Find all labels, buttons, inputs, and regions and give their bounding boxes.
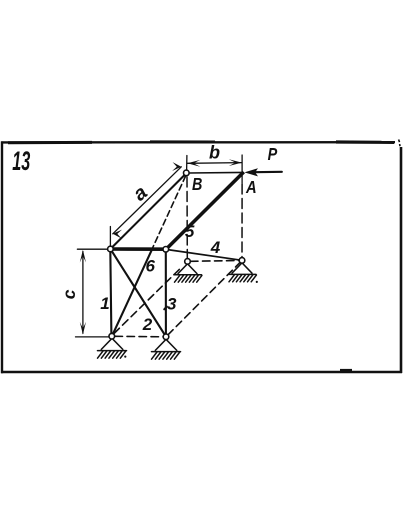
svg-text:P: P [268,144,278,164]
svg-text:B: B [192,176,202,195]
svg-text:a: a [129,182,152,206]
svg-text:c: c [59,289,79,299]
svg-text:4: 4 [210,238,221,257]
svg-text:13: 13 [12,146,30,176]
svg-text:2: 2 [142,315,153,334]
svg-text:A: A [245,178,257,198]
svg-text:1: 1 [100,294,109,313]
svg-text:3: 3 [167,294,177,313]
svg-text:b: b [209,143,220,163]
svg-text:5: 5 [185,222,195,241]
svg-text:6: 6 [146,256,156,275]
